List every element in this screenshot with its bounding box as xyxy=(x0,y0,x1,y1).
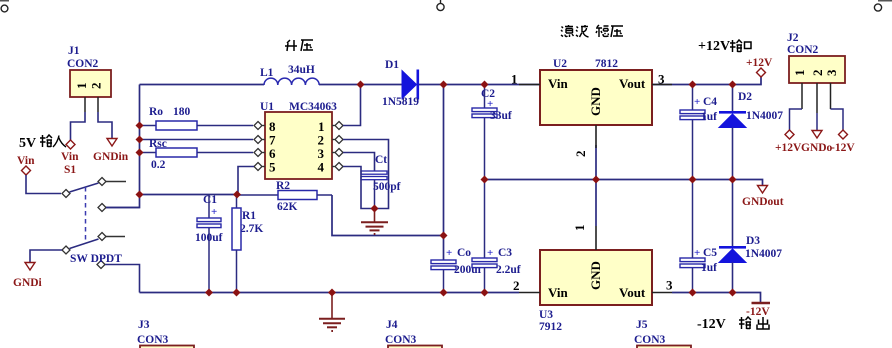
svg-text:+: + xyxy=(694,96,700,108)
pin 6 xyxy=(263,152,266,154)
junction GND rail/C2-C3 xyxy=(481,176,489,184)
svg-text:3: 3 xyxy=(658,72,665,87)
svg-text:62K: 62K xyxy=(277,201,298,213)
wire feedback R2 to output column xyxy=(332,195,444,236)
svg-text:Vin: Vin xyxy=(548,285,569,300)
junction bus/ground xyxy=(328,289,336,297)
svg-text:Vout: Vout xyxy=(619,285,646,300)
svg-text:7812: 7812 xyxy=(595,58,618,70)
svg-text:J4: J4 xyxy=(386,319,398,331)
svg-text:1: 1 xyxy=(572,225,587,232)
capacitor C5 1uf xyxy=(680,180,717,293)
svg-text:L1: L1 xyxy=(260,67,274,79)
resistor R1 2.7K xyxy=(232,195,263,293)
svg-text:GNDout: GNDout xyxy=(742,196,784,208)
svg-text:3: 3 xyxy=(824,69,839,76)
pin 8 xyxy=(263,125,266,127)
svg-text:-12V: -12V xyxy=(697,317,726,332)
svg-text:1uf: 1uf xyxy=(701,111,717,123)
junction output column/feedback xyxy=(440,232,448,240)
capacitor C2 33uf xyxy=(472,85,512,180)
pin 1 label U3 xyxy=(595,226,597,250)
connector J1 CON2 xyxy=(67,45,112,140)
wire pin 5 to feedback node xyxy=(238,167,254,195)
svg-text:2.7K: 2.7K xyxy=(240,223,263,235)
switch common A contact xyxy=(62,190,70,198)
connector stub top-left xyxy=(0,1,9,12)
pin 7 xyxy=(263,139,266,141)
pin J2-1 lead xyxy=(801,83,803,109)
label filter/regulate section (Chinese) xyxy=(561,25,623,37)
wire pin 2 to Ct ground node xyxy=(343,140,389,209)
svg-text:R1: R1 xyxy=(242,210,256,222)
svg-text:34uH: 34uH xyxy=(288,64,315,76)
wire stub throw A1 xyxy=(106,181,126,183)
svg-text:1: 1 xyxy=(792,70,807,77)
resistor Ro 180 xyxy=(140,106,254,130)
port Vin (from J1) xyxy=(61,140,79,163)
label boost section (Chinese) xyxy=(285,40,313,51)
svg-text:D3: D3 xyxy=(746,235,760,247)
svg-text:J2: J2 xyxy=(787,32,799,44)
junction feedback node R1/R2/pin5 xyxy=(233,191,241,199)
junction bus/Rsc xyxy=(136,149,144,157)
svg-text:7912: 7912 xyxy=(539,321,562,333)
capacitor Ct 500pf xyxy=(361,154,401,209)
svg-text:2: 2 xyxy=(513,278,520,293)
wire pin 3 to Ct xyxy=(343,153,375,172)
connector stub top-right xyxy=(874,1,892,12)
svg-text:U2: U2 xyxy=(553,58,567,70)
junction bus/Ro xyxy=(136,122,144,130)
svg-text:SW DPDT: SW DPDT xyxy=(70,253,122,265)
svg-text:2: 2 xyxy=(810,70,825,77)
wire pin 1 to L1/D1 node xyxy=(343,85,361,126)
svg-text:1N5819: 1N5819 xyxy=(382,96,419,108)
label 5V input (Chinese) xyxy=(19,135,66,151)
svg-text:+: + xyxy=(694,247,700,259)
svg-text:CON3: CON3 xyxy=(137,334,169,346)
svg-text:1uf: 1uf xyxy=(701,262,717,274)
svg-text:1: 1 xyxy=(74,83,89,90)
junction bus/pin7 xyxy=(136,136,144,144)
svg-text:U3: U3 xyxy=(539,309,553,321)
inductor L1 34uH xyxy=(260,64,319,85)
op-amp U1 MC34063 xyxy=(254,101,343,179)
pin 2 label U3 xyxy=(519,292,540,294)
svg-text:4: 4 xyxy=(318,160,325,175)
svg-text:J3: J3 xyxy=(138,319,150,331)
label +12V output (Chinese) xyxy=(698,39,751,54)
connector J5 CON3 xyxy=(634,319,691,348)
junction C2 top xyxy=(481,81,489,89)
port Vin (left) xyxy=(17,155,35,175)
pin 3 label U2 xyxy=(652,84,672,86)
svg-text:180: 180 xyxy=(173,106,191,118)
svg-text:-12V: -12V xyxy=(746,306,770,318)
svg-text:1N4007: 1N4007 xyxy=(746,110,783,122)
wire throw B2 to bottom bus xyxy=(105,265,140,293)
ground (bottom bus) xyxy=(319,293,345,332)
svg-text:2: 2 xyxy=(89,83,104,90)
switch throw B1 contact xyxy=(98,233,106,241)
label -12V output (Chinese) xyxy=(697,317,769,332)
wire C1/R2 node horizontal xyxy=(140,194,238,196)
capacitor C1 100uf xyxy=(195,194,223,293)
pin 3 xyxy=(332,152,335,154)
port GNDin xyxy=(93,139,129,164)
svg-text:Vout: Vout xyxy=(619,76,646,91)
wire stub throw B1 xyxy=(106,236,125,238)
svg-text:+: + xyxy=(487,247,493,259)
connector J2 CON2 xyxy=(787,32,845,130)
regulator U2 7812 xyxy=(511,58,672,157)
svg-text:GNDo: GNDo xyxy=(801,142,833,154)
svg-text:GNDin: GNDin xyxy=(93,151,129,163)
svg-text:5V: 5V xyxy=(19,136,36,151)
wire bottom bus xyxy=(140,292,520,294)
port +12V (J2) xyxy=(775,130,802,154)
svg-text:5: 5 xyxy=(269,160,276,175)
junction -12V rail/C5 xyxy=(689,289,697,297)
junction D2 top xyxy=(729,81,737,89)
junction bus/R1 bottom xyxy=(233,289,241,297)
pin J2-2 lead xyxy=(816,83,818,113)
svg-text:1N4007: 1N4007 xyxy=(745,248,782,260)
wire output column D1 to Co xyxy=(443,85,445,261)
svg-text:2.2uf: 2.2uf xyxy=(496,264,521,276)
switch throw A1 contact xyxy=(98,178,106,186)
svg-text:CON3: CON3 xyxy=(634,334,666,346)
resistor Rsc 0.2 xyxy=(140,138,254,171)
junction bus/C1 wire xyxy=(136,191,144,199)
diode D2 1N4007 xyxy=(719,85,783,180)
svg-text:Ro: Ro xyxy=(149,106,163,118)
wire bus to pin 7 xyxy=(140,139,254,141)
svg-text:100uf: 100uf xyxy=(195,232,223,244)
wire U3 Vout to -12V bar xyxy=(672,293,761,303)
junction bus/C1 bottom xyxy=(205,289,213,297)
svg-text:J5: J5 xyxy=(636,319,648,331)
wire D1 cathode to U2 Vin xyxy=(419,84,540,86)
svg-text:500pf: 500pf xyxy=(373,181,401,193)
connector J3 CON3 xyxy=(137,319,194,348)
capacitor C3 2.2uf xyxy=(472,180,521,293)
svg-text:CON2: CON2 xyxy=(787,44,819,56)
svg-text:-12V: -12V xyxy=(831,142,855,154)
port +12V xyxy=(746,57,773,77)
svg-text:Vin: Vin xyxy=(61,151,79,163)
switch common B contact xyxy=(62,246,70,254)
svg-text:1: 1 xyxy=(511,72,518,87)
svg-text:Co: Co xyxy=(457,247,471,259)
svg-text:C1: C1 xyxy=(203,194,217,206)
wire U2 GND pin down xyxy=(595,145,597,180)
switch S1 SW DPDT xyxy=(62,164,126,269)
pin J2-3 lead xyxy=(830,83,832,109)
ground (Ct node) xyxy=(361,209,388,235)
port -12V (J2) xyxy=(831,130,855,154)
svg-text:2: 2 xyxy=(573,151,588,158)
svg-text:D1: D1 xyxy=(385,59,399,71)
wire top rail left (bus corner to L1) xyxy=(140,84,265,86)
pin 2 label U2 xyxy=(595,125,597,148)
svg-text:D2: D2 xyxy=(738,91,752,103)
wire L1 to D1 junction xyxy=(319,84,402,86)
wire throw A2 to bus xyxy=(106,207,140,209)
svg-text:+12V: +12V xyxy=(698,39,730,54)
resistor R2 62K xyxy=(237,180,332,213)
switch arm B xyxy=(70,239,99,249)
switch arm A xyxy=(70,183,99,192)
connector stub top-middle xyxy=(437,0,444,11)
regulator U3 7912 xyxy=(513,225,673,334)
capacitor Co 200uf xyxy=(431,247,482,293)
switch throw B2 contact xyxy=(97,261,105,269)
pin J1-1 lead xyxy=(84,97,86,112)
svg-text:GNDi: GNDi xyxy=(13,277,43,289)
svg-text:33uf: 33uf xyxy=(490,110,512,122)
junction Ct ground node xyxy=(371,205,379,213)
wire left input bus vertical xyxy=(105,85,140,208)
switch linkage dashed xyxy=(85,187,87,243)
svg-text:C4: C4 xyxy=(703,96,717,108)
wire U2 Vout to +12V port xyxy=(652,77,761,85)
wire U3 GND pin up xyxy=(595,180,597,227)
svg-text:CON3: CON3 xyxy=(385,334,417,346)
svg-text:+: + xyxy=(211,206,217,218)
port GNDout xyxy=(742,186,784,209)
pin 1 label U2 xyxy=(519,84,540,86)
svg-text:C3: C3 xyxy=(498,247,512,259)
port GNDo (J2) xyxy=(801,131,833,155)
junction bus/Co bottom xyxy=(440,289,448,297)
pin 1 xyxy=(332,125,335,127)
svg-text:Ct: Ct xyxy=(375,154,387,166)
svg-text:0.2: 0.2 xyxy=(151,159,166,171)
wire Vin port to switch common A xyxy=(26,175,61,194)
junction C4 top xyxy=(689,81,697,89)
svg-text:+: + xyxy=(446,247,452,259)
junction -12V rail/D3 xyxy=(729,289,737,297)
svg-text:GND: GND xyxy=(588,87,603,116)
pin 5 xyxy=(263,166,266,168)
junction L1/D1/pin1 xyxy=(357,81,365,89)
svg-text:+12V: +12V xyxy=(775,142,802,154)
svg-text:J1: J1 xyxy=(68,45,80,57)
junction GND rail/U2-U3 xyxy=(592,176,600,184)
connector J4 CON3 xyxy=(385,319,442,348)
power bar -12V xyxy=(746,303,770,318)
wire pin 4 to Ct ground node xyxy=(343,167,375,209)
wire mid GND rail xyxy=(485,180,763,186)
junction bus/C3 bottom xyxy=(481,289,489,297)
svg-text:C5: C5 xyxy=(703,247,717,259)
wire common B to GNDi port xyxy=(30,250,62,262)
junction D1 output xyxy=(440,81,448,89)
port GNDi xyxy=(13,263,43,290)
diode D1 1N5819 xyxy=(382,59,419,108)
switch throw A2 contact xyxy=(98,204,106,212)
svg-text:S1: S1 xyxy=(64,164,76,176)
pin 4 xyxy=(332,166,335,168)
diode D3 1N4007 xyxy=(719,180,782,293)
svg-text:+12V: +12V xyxy=(746,57,773,69)
svg-text:CON2: CON2 xyxy=(67,58,99,70)
pin J1-2 lead xyxy=(97,97,99,112)
svg-text:GND: GND xyxy=(588,261,603,290)
pin 3 label U3 xyxy=(652,292,672,294)
junction GND rail/C4-C5 xyxy=(689,176,697,184)
junction GND rail/D2-D3 xyxy=(729,176,737,184)
svg-text:3: 3 xyxy=(666,278,673,293)
capacitor C4 1uf xyxy=(680,85,717,180)
svg-text:Vin: Vin xyxy=(548,76,569,91)
pin 2 xyxy=(332,139,335,141)
